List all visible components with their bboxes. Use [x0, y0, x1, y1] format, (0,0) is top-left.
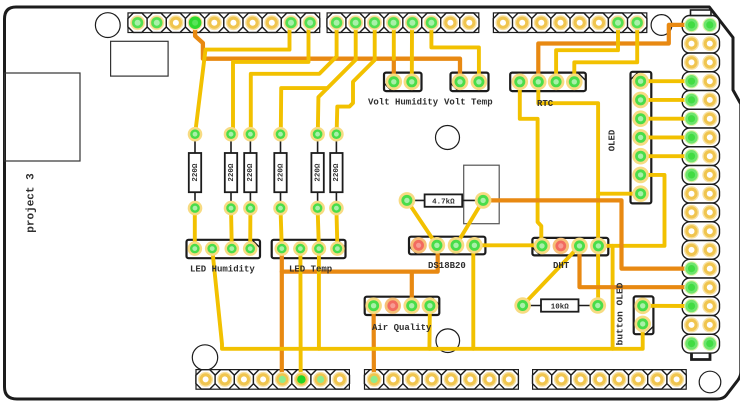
mounting hole bottom-left [192, 345, 217, 370]
LED Temp pads [275, 241, 345, 256]
svg-text:LED Humidity: LED Humidity [190, 265, 255, 275]
wire orange 5V from headerA pad4 to Volt connectors [195, 27, 460, 82]
header J_bot_C block [533, 370, 687, 390]
svg-text:10kΩ: 10kΩ [551, 304, 570, 312]
resistor pads [188, 127, 344, 216]
wire branch to OLED pad7 [598, 192, 644, 196]
DHT pads [534, 238, 607, 255]
header J_right pads [684, 18, 717, 351]
connector Volt Temp rect [451, 73, 489, 92]
Air Quality pads [365, 297, 438, 314]
connector DS18B20 rect [409, 237, 485, 255]
wire 4.7k left pad to DS18B20 pad2 [407, 200, 437, 245]
svg-text:LED Temp: LED Temp [289, 265, 332, 275]
resistor R3 220 [244, 134, 256, 208]
header J_top_C block [493, 13, 647, 33]
header J_bot_C pads [535, 372, 684, 387]
connector OLED rect [631, 72, 652, 204]
silkscreen power jack [5, 73, 81, 161]
connector Air Quality rect [365, 297, 440, 315]
wire orange RTC pad2 to right header row1 [538, 25, 691, 82]
label button OLED [615, 282, 626, 345]
4.7k pads [399, 192, 492, 209]
label DHT [553, 261, 570, 271]
wire 4.7k right pad to DS18B20 pad3 [456, 200, 483, 245]
label Air Quality [372, 323, 432, 333]
wire branch to R4 [281, 88, 328, 133]
wire headerB pad6 to Volt Temp pad2 [431, 27, 479, 82]
RTC pads [512, 74, 583, 91]
wire R4 to LED Temp pad1 [281, 208, 282, 249]
resistor R6 220 [330, 134, 342, 208]
wire orange DHT pad3 to right row15 [580, 246, 692, 287]
label OLED [608, 129, 618, 151]
Volt Temp pads [452, 74, 488, 91]
wire RTC pad2 down to DHT pad4 [538, 82, 598, 246]
wire LED Temp pad2 to bottom header pad6 [298, 249, 302, 380]
resistor R8 10k [523, 299, 598, 311]
DS18B20 pads [410, 237, 482, 254]
label Volt Humidity [368, 98, 439, 108]
svg-text:220Ω: 220Ω [277, 163, 285, 182]
connector RTC rect [510, 73, 586, 92]
svg-text:Volt Temp: Volt Temp [444, 98, 493, 108]
resistor R2 220 [225, 134, 237, 208]
connector Volt Humidity rect [384, 73, 422, 92]
connector button OLED rect [634, 296, 654, 334]
wire OLED pad1 to right row4 [641, 79, 688, 83]
wire OLED pad6 loop to DHT pad4 net [598, 175, 664, 246]
label project 3 [26, 173, 38, 233]
wire OLED pad3 to right row6 [641, 117, 688, 121]
svg-text:DS18B20: DS18B20 [428, 261, 466, 271]
wire Air Quality pad4 down to bottom net [427, 306, 431, 349]
header J_bot_B block [364, 370, 518, 390]
wire orange LED Temp pad1 down to bottom header [280, 249, 284, 380]
header J_right bottom tab [692, 354, 711, 360]
svg-text:project 3: project 3 [26, 173, 38, 233]
wire branch down to bottom net [611, 246, 615, 349]
header J_bot_A pads [198, 372, 347, 387]
label DS18B20 [428, 261, 466, 271]
wire RTC pad3 to headerC pad7 [556, 27, 618, 82]
svg-text:220Ω: 220Ω [314, 163, 322, 182]
connector LED Humidity rect [187, 240, 261, 258]
wire headerB pad1 to R3 [251, 27, 337, 134]
wire orange 4.7k right pad to right row14 [483, 200, 691, 268]
label Volt Temp [444, 98, 493, 108]
svg-text:Volt Humidity: Volt Humidity [368, 98, 439, 108]
silkscreen IC outline [464, 165, 500, 224]
wire headerB pad4 stub [392, 27, 396, 59]
svg-text:220Ω: 220Ω [192, 163, 200, 182]
wire headerA pad9 to R1 [195, 27, 289, 133]
wire headerB pad5 to Volt Humidity pad2 [410, 27, 414, 82]
mounting hole middle [436, 126, 460, 150]
mounting hole top-left [95, 13, 120, 38]
label LED Humidity [190, 265, 255, 275]
wire OLED pad5 to right row8 [641, 154, 688, 158]
header J_top_C pads [496, 15, 645, 30]
wire OLED pad2 to right row5 [641, 98, 688, 102]
header J_bot_B pads [367, 372, 517, 387]
wire RTC pad1 to DHT pad1 [520, 82, 542, 246]
wire LED Temp pad3 to bottom net [317, 249, 321, 349]
svg-text:220Ω: 220Ω [247, 163, 255, 182]
header J_top_A block [128, 13, 320, 33]
svg-text:OLED: OLED [608, 129, 618, 151]
wire headerB pad3 to R6 [337, 27, 375, 134]
10k pads [514, 297, 606, 314]
wire 10k left pad to DHT pad3 [523, 246, 580, 306]
header J_top_A pads [130, 15, 318, 30]
button OLED pads [634, 298, 651, 333]
header J_top_B block [327, 13, 479, 33]
svg-text:4.7kΩ: 4.7kΩ [432, 199, 455, 207]
wire R3 to LED Humidity pad4 [248, 208, 252, 249]
svg-text:Air Quality: Air Quality [372, 323, 432, 333]
wire DS18B20 pad4 to DHT pad1 [474, 243, 541, 247]
LED Humidity pads [188, 241, 258, 256]
mounting hole top-right [651, 15, 672, 36]
header J_right dual-row block [682, 16, 719, 354]
wire R6 to LED Temp pad4 [336, 208, 337, 249]
wire orange branch to DS18B20 pad2 [282, 245, 438, 271]
wire headerB pad2 diagonal to R5 [318, 27, 356, 134]
svg-text:DHT: DHT [553, 261, 570, 271]
resistor R7 4.7k [407, 194, 483, 206]
svg-text:220Ω: 220Ω [228, 163, 236, 182]
wire button OLED pad1 to right row16 [643, 304, 692, 308]
OLED pads [632, 73, 649, 202]
header J_bot_A block [196, 370, 350, 390]
connector DHT rect [532, 238, 608, 256]
wire DHT pad4 to 10k right pad [596, 245, 600, 305]
connector LED Temp rect [272, 240, 346, 258]
wire R2 to LED Humidity pad3 [229, 208, 234, 249]
resistor R1 220 [189, 134, 201, 208]
header J_top_B pads [329, 15, 477, 30]
silkscreen usb [111, 41, 169, 76]
wire orange Air Quality pad1 to bottom header [372, 306, 376, 380]
header J_right top tab [691, 10, 712, 16]
resistor R5 220 [311, 134, 323, 208]
wire DS18B20 pad4 down to bottom net [471, 245, 475, 348]
wire bottom net horizontal [212, 249, 643, 349]
wire orange stub to Volt Humidity pad1 [392, 59, 396, 82]
mounting hole bottom-right [699, 371, 721, 393]
Volt Humidity pads [386, 74, 421, 91]
svg-text:220Ω: 220Ω [333, 163, 341, 182]
wire OLED pad4 to right row7 [641, 135, 688, 139]
wire R1 to LED Humidity pad1 [193, 208, 197, 249]
wire RTC pad4 to headerC pad8 [574, 27, 637, 82]
mounting hole bottom-middle [436, 329, 460, 353]
wire orange branch to Air Quality pad3 [410, 272, 414, 306]
svg-text:button OLED: button OLED [615, 282, 626, 345]
label RTC [537, 99, 554, 109]
wire headerA pad10 to R2 [233, 27, 309, 134]
label LED Temp [289, 265, 332, 275]
wire R5 to LED Temp pad3 [318, 208, 319, 249]
resistor R4 220 [274, 134, 286, 208]
svg-text:RTC: RTC [537, 99, 554, 109]
